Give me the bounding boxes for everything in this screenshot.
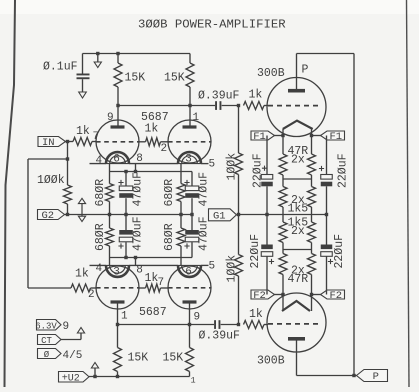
pin 5 stub V1b (201, 163, 209, 165)
svg-text:4: 4 (96, 155, 103, 167)
junction rail/C1 (124, 213, 127, 216)
F2 row left (267, 294, 283, 296)
svg-text:9: 9 (63, 321, 70, 333)
row above 47R lower (283, 249, 312, 251)
svg-text:Ø.39uF: Ø.39uF (199, 330, 241, 343)
tag F2 left (251, 290, 275, 299)
wire C4 to cathode row bottom (191, 242, 193, 257)
junction rail/680R ul (108, 213, 111, 216)
wire CT to chassis arrow (61, 339, 81, 341)
wire branch down left side (27, 159, 29, 288)
capacitor C3 470uF (119, 230, 133, 235)
wire 47R ur to 1k5 (311, 175, 313, 187)
junction cathode row / 470uF C1 (124, 170, 127, 173)
resistor 47R upper-right (308, 154, 316, 175)
svg-text:15K: 15K (128, 352, 149, 365)
junction IN node (66, 140, 69, 143)
junction plate V2a (116, 323, 119, 326)
wire rail to 1k5 ll (282, 215, 284, 223)
wire top driver supply rail (83, 53, 191, 55)
tag P output (357, 370, 388, 382)
plus of C1 (118, 180, 123, 185)
svg-text:2x: 2x (291, 154, 305, 167)
wire C6 220uF top lead (326, 136, 328, 175)
wire 15K R4 to +U2 rail (189, 372, 191, 377)
svg-text:7: 7 (158, 277, 165, 289)
capacitor C 0.39uF top (215, 101, 217, 110)
resistor 1k5 upper-left (279, 187, 287, 208)
wire 470uF C1 top lead (125, 172, 127, 187)
tag +U2 (59, 372, 90, 383)
pin 4 stub V1a (90, 163, 107, 165)
svg-text:15K: 15K (125, 72, 146, 85)
page left edge (scan border) (5, 0, 16, 387)
junction +U2 rail / 15K R3 (116, 375, 119, 378)
riser left bottom 300B (282, 275, 284, 312)
svg-text:Ø.1uF: Ø.1uF (43, 61, 78, 74)
wire C4 from rail (191, 215, 193, 231)
wire C3 from rail (125, 215, 127, 231)
svg-text:1k: 1k (76, 125, 90, 138)
svg-text:47R: 47R (288, 273, 309, 286)
wire 1k5 ul to rail (282, 207, 284, 215)
wire 1k5 lr to 47R (311, 243, 313, 254)
wire 680R ll to chord (109, 246, 111, 265)
resistor 47R upper-left (279, 154, 287, 175)
svg-text:300B: 300B (257, 67, 285, 80)
svg-text:22ØuF: 22ØuF (333, 234, 346, 269)
wire C6 to rail (326, 186, 328, 214)
capacitor C1 470uF (119, 186, 133, 191)
wire plate run top (297, 53, 355, 55)
resistor 100k lower (235, 255, 243, 277)
resistor 100k upper (235, 153, 243, 175)
wire branch left (28, 158, 68, 160)
wire 680R ur to rail (180, 202, 182, 215)
tag G1 (209, 209, 237, 221)
svg-text:5687: 5687 (139, 306, 167, 319)
resistor 47R lower-right (308, 254, 316, 275)
svg-text:P: P (302, 64, 309, 77)
svg-text:15K: 15K (163, 352, 184, 365)
junction F1 left (281, 134, 284, 137)
wire C7 to F2 row (266, 256, 268, 294)
wire 100k to G1 rail (238, 175, 240, 215)
wire 1k to V2b (161, 287, 169, 289)
resistor 680R upper-left (106, 184, 114, 202)
tag 6.3V heater (37, 320, 62, 331)
wire V2a plate down (117, 304, 119, 348)
junction rail/C2 (190, 213, 193, 216)
tag G2 (38, 210, 65, 220)
svg-text:Ø: Ø (44, 350, 50, 360)
junction P net (352, 374, 355, 377)
wire right side vertical (P net) (353, 54, 355, 376)
wire V1a grid dash to 1k (139, 141, 146, 143)
ground arrow below 0.1uF (79, 92, 87, 98)
junction rail/680R ur (179, 213, 182, 216)
svg-text:68ØR: 68ØR (94, 179, 107, 207)
svg-text:22ØuF: 22ØuF (249, 234, 262, 269)
wire IN to node (66, 141, 74, 143)
svg-text:1k5: 1k5 (288, 203, 309, 216)
plus of C4 (184, 243, 189, 248)
wire C5 to rail (266, 186, 268, 214)
wire G1 rail right segment (239, 214, 327, 216)
svg-text:1ØØk: 1ØØk (226, 255, 239, 283)
wire 1k to 300B grid (264, 105, 268, 107)
resistor 680R upper-right (177, 184, 185, 202)
svg-text:1k: 1k (75, 268, 89, 281)
row below 47R upper (283, 178, 312, 180)
wire V1a left leg down (109, 164, 111, 184)
svg-text:2: 2 (161, 143, 168, 155)
capacitor C2 470uF (185, 186, 199, 191)
junction rail/C6 (325, 213, 328, 216)
triode V2a 5687 (lower left) (96, 266, 139, 309)
wire 1k to V1a grid (92, 141, 96, 143)
page right edge (scan border) (407, 0, 410, 387)
wire 1k to bottom 300B grid (264, 324, 268, 326)
wire rail corner into 15K R2 (189, 54, 191, 64)
svg-text:G1: G1 (213, 210, 226, 222)
wire 15K R1 to plate node (117, 87, 119, 126)
svg-text:1k: 1k (249, 89, 263, 102)
junction plate V1b (188, 104, 191, 107)
junction F2 right (310, 293, 313, 296)
plus of C6 (319, 166, 324, 171)
wire V1b left leg down (180, 164, 182, 184)
svg-text:3: 3 (113, 267, 120, 279)
wire G1 rail down to lower 100k (238, 215, 240, 255)
riser left top 300B (282, 129, 284, 154)
wire 1k to V2a grid (91, 287, 97, 289)
wire 1k5 ur to rail (311, 207, 313, 215)
junction grid node bottom 300B (237, 323, 240, 326)
capacitor C5 220uF (261, 175, 273, 180)
svg-text:47ØuF: 47ØuF (198, 216, 211, 251)
resistor 680R lower-right (177, 228, 185, 246)
F1 row right (312, 135, 327, 137)
svg-text:1k: 1k (145, 123, 159, 136)
svg-text:47ØuF: 47ØuF (198, 172, 211, 207)
resistor 1k V2a grid (71, 284, 91, 292)
tag F2 right (321, 290, 345, 299)
svg-text:47ØuF: 47ØuF (132, 172, 145, 207)
svg-text:9: 9 (107, 112, 114, 124)
resistor 1k grid stopper V1a (73, 138, 92, 146)
tag CT heater center tap (38, 335, 62, 345)
resistor 1k5 lower-left (279, 222, 287, 243)
plus of C8 (328, 259, 333, 264)
svg-text:F1: F1 (253, 131, 266, 143)
svg-text:1ØØk: 1ØØk (226, 153, 239, 181)
wire C7 from rail (266, 215, 268, 245)
drop from cathode tie to row (135, 164, 137, 172)
resistor 47R lower-left (279, 254, 287, 275)
resistor R2 15K (186, 63, 194, 87)
wire G2 rail left segment (65, 214, 193, 216)
junction +U2 rail / up-arrow (93, 375, 96, 378)
wire 1k to V1b (161, 141, 169, 143)
capacitor C7 220uF (261, 245, 273, 250)
plus of C5 (262, 166, 267, 171)
plus of C7 (269, 259, 274, 264)
wire 0.1uF to ground (82, 79, 84, 92)
capacitor C4 470uF (185, 230, 199, 235)
junction grid node top 300B (237, 104, 240, 107)
triode V1b 5687 (upper right) (168, 120, 211, 163)
svg-text:1: 1 (191, 376, 196, 386)
resistor 1k grid stopper bottom 300B (244, 321, 265, 329)
wire 15K R2 to plate node (189, 87, 191, 126)
svg-text:68ØR: 68ØR (163, 179, 176, 207)
drop bottom chord tie (135, 258, 137, 266)
pin 5 stub V2b (201, 264, 209, 266)
wire 47R ul to 1k5 (282, 175, 284, 187)
resistor 1k V2b grid (146, 284, 161, 292)
svg-text:8: 8 (136, 265, 143, 277)
wire C3 to cathode row bottom (125, 242, 127, 257)
junction rail / 15K R1 (116, 52, 119, 55)
wire 680R lr to chord (180, 246, 182, 265)
wire +U2 rail (89, 376, 190, 378)
wire C2 to rail (191, 198, 193, 214)
svg-text:5: 5 (209, 159, 216, 171)
junction G2 node (66, 213, 69, 216)
svg-text:P: P (373, 371, 379, 383)
svg-text:6.3V: 6.3V (35, 321, 57, 331)
wire lower 100k to bottom grid node (238, 276, 240, 325)
up arrow on +U2 rail (off-page) (94, 368, 96, 377)
wire 15K R3 to +U2 rail (117, 372, 119, 377)
wire rail to 680R lower-left (109, 215, 111, 229)
wire V2b plate down (189, 304, 191, 348)
resistor R4 15K (186, 348, 194, 372)
riser right top 300B (311, 129, 313, 154)
svg-text:3ØØB POWER-AMPLIFIER: 3ØØB POWER-AMPLIFIER (138, 18, 286, 32)
svg-text:6: 6 (185, 267, 192, 279)
wire C8 to F2 row (326, 256, 328, 294)
wire plate row bottom (118, 324, 215, 326)
svg-text:22ØuF: 22ØuF (252, 153, 265, 188)
resistor 100k input (64, 185, 72, 204)
wire IN node down (67, 142, 69, 186)
tag 0 heater (38, 349, 62, 359)
down arrow on top rail (off-page) (97, 54, 99, 63)
plus of C3 (118, 243, 123, 248)
wire bottom plate run to P (297, 375, 357, 377)
svg-text:4/5: 4/5 (63, 350, 83, 362)
junction branch to lower grids (66, 157, 69, 160)
wire plate lead down bottom 300B (296, 341, 298, 376)
resistor 680R lower-left (106, 228, 114, 246)
tag F1 right (321, 131, 345, 140)
svg-text:300B: 300B (257, 355, 285, 368)
triode V1a 5687 (upper left) (96, 120, 139, 163)
wire plate row V1a-V1b (118, 105, 215, 107)
capacitor C8 220uF (321, 245, 333, 250)
up/down arrows at G2 rail (81, 204, 83, 217)
riser right bottom 300B (311, 275, 313, 312)
cathode row top (110, 171, 193, 173)
capacitor C 0.39uF bottom (214, 320, 216, 329)
svg-text:2: 2 (88, 289, 95, 301)
capacitor C6 220uF (321, 175, 333, 180)
svg-text:22ØuF: 22ØuF (337, 153, 350, 188)
white top strip (0, 0, 419, 14)
F1 row left (267, 135, 283, 137)
junction bottom row / C3 (124, 256, 127, 259)
svg-text:1: 1 (193, 112, 200, 124)
tube 300B upper (267, 78, 326, 137)
resistor 1k grid stopper top 300B (244, 102, 265, 110)
junction rail / down-arrow (96, 52, 99, 55)
wire C8 from rail (326, 215, 328, 245)
tube 300B lower (267, 293, 326, 352)
svg-text:1: 1 (121, 311, 128, 323)
resistor 1k V1b grid (146, 138, 161, 146)
svg-text:1k: 1k (249, 308, 263, 321)
junction bottom row / drop (134, 256, 137, 259)
junction cathode row / drop (134, 170, 137, 173)
svg-text:68ØR: 68ØR (94, 223, 107, 251)
svg-text:15K: 15K (164, 72, 185, 85)
wire rail drop to 0.1uF cap (82, 54, 84, 74)
wire 100k to G2 rail (67, 204, 69, 215)
resistor R3 15K (114, 348, 122, 372)
plus of C2 (184, 180, 189, 185)
tag IN (38, 137, 66, 147)
wire 470uF C2 top lead (191, 172, 193, 187)
wire 0.39uF to grid node (222, 105, 239, 107)
junction rail/C5 (265, 213, 268, 216)
cathode row bottom (110, 257, 193, 259)
svg-text:6: 6 (113, 153, 120, 165)
cathode tie V1a-V1b at chord level (129, 163, 178, 165)
wire branch to lower 1k (28, 287, 71, 289)
svg-text:F2: F2 (253, 290, 266, 302)
wire rail to 15K R1 (117, 54, 119, 64)
resistor 1k5 lower-right (308, 222, 316, 243)
wire V2a grid dash to 1k (139, 287, 146, 289)
svg-text:+U2: +U2 (62, 373, 80, 384)
tag F1 left (251, 131, 275, 140)
wire 0.39uF to bottom grid node (221, 324, 239, 326)
svg-text:9: 9 (194, 312, 201, 324)
svg-text:5: 5 (209, 261, 216, 273)
svg-text:F2: F2 (329, 290, 342, 302)
F2 row right (312, 294, 327, 296)
junction plate V2b (188, 323, 191, 326)
resistor 1k5 upper-right (308, 187, 316, 208)
wire 680R to rail (109, 202, 111, 215)
junction G1 node (237, 213, 240, 216)
wire C1 to rail (125, 198, 127, 214)
junction F2 left (281, 293, 284, 296)
up arrow chassis (CT) (80, 333, 82, 340)
svg-text:2x: 2x (291, 225, 305, 238)
wire plate lead up top 300B (296, 54, 298, 90)
svg-text:G2: G2 (41, 210, 54, 222)
junction F1 right (310, 134, 313, 137)
resistor R1 15K (114, 63, 122, 87)
wire grid node down to 100k (238, 106, 240, 154)
capacitor C 0.1uF plates (77, 74, 90, 76)
cathode tie V2a-V2b chord level (129, 264, 178, 266)
svg-text:3: 3 (185, 153, 192, 165)
svg-text:Ø.39uF: Ø.39uF (198, 90, 240, 103)
wire rail to 1k5 lr (311, 215, 313, 223)
wire rail to 680R lower-right (180, 215, 182, 229)
wire C5 220uF top lead (266, 136, 268, 175)
svg-text:68ØR: 68ØR (163, 223, 176, 251)
svg-text:IN: IN (42, 137, 55, 149)
junction plate V1a (116, 104, 119, 107)
svg-text:8: 8 (136, 153, 143, 165)
wire 1k5 ll to 47R (282, 243, 284, 254)
svg-text:F1: F1 (329, 131, 342, 143)
pin 4 stub V2a (90, 264, 107, 266)
svg-text:1ØØk: 1ØØk (37, 174, 65, 187)
svg-text:47ØuF: 47ØuF (132, 216, 145, 251)
svg-text:CT: CT (41, 336, 52, 346)
triode V2b 5687 (lower right) (168, 266, 211, 309)
